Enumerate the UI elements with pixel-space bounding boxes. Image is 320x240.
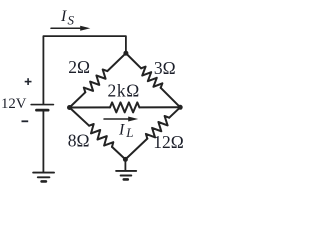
node A (bridge top junction) bbox=[123, 51, 128, 56]
battery V1 negative plate bbox=[37, 109, 49, 112]
label IS bbox=[60, 8, 75, 27]
wire node D to ground stub bbox=[124, 159, 126, 170]
current arrow IL bbox=[104, 117, 138, 122]
svg-text:3Ω: 3Ω bbox=[154, 58, 176, 78]
ground (bridge bottom) bbox=[116, 171, 136, 180]
wire battery bottom to ground bbox=[42, 111, 44, 172]
svg-text:L: L bbox=[125, 125, 133, 140]
wire battery top to top rail and down to node A bbox=[43, 36, 126, 104]
resistor R1 2Ω (wire + zigzag, node A to node B) bbox=[70, 53, 126, 107]
node D (bridge bottom junction) bbox=[123, 157, 128, 162]
svg-text:12V: 12V bbox=[1, 96, 27, 112]
resistor R3 8Ω (wire + zigzag, node B to node D) bbox=[70, 108, 126, 160]
svg-text:I: I bbox=[118, 121, 125, 138]
svg-text:I: I bbox=[60, 8, 67, 25]
ground (left, battery return) bbox=[33, 173, 54, 182]
current arrow IS bbox=[51, 26, 90, 31]
label IL bbox=[118, 121, 133, 140]
resistor R5 2kΩ (wire + zigzag, node B to node C) bbox=[70, 102, 181, 112]
svg-text:S: S bbox=[68, 12, 75, 27]
svg-text:2kΩ: 2kΩ bbox=[108, 81, 140, 101]
polarity − bbox=[22, 120, 29, 122]
resistor R2 3Ω (wire + zigzag, node A to node C) bbox=[126, 53, 180, 107]
resistor R4 12Ω (wire + zigzag, node C to node D) bbox=[125, 107, 180, 159]
node C (bridge right junction) bbox=[178, 105, 183, 110]
svg-text:2Ω: 2Ω bbox=[68, 57, 90, 77]
svg-text:8Ω: 8Ω bbox=[68, 130, 90, 150]
svg-text:12Ω: 12Ω bbox=[153, 132, 184, 152]
battery V1 positive plate bbox=[31, 104, 53, 106]
node B (bridge left junction) bbox=[67, 105, 72, 110]
polarity + bbox=[25, 78, 32, 85]
